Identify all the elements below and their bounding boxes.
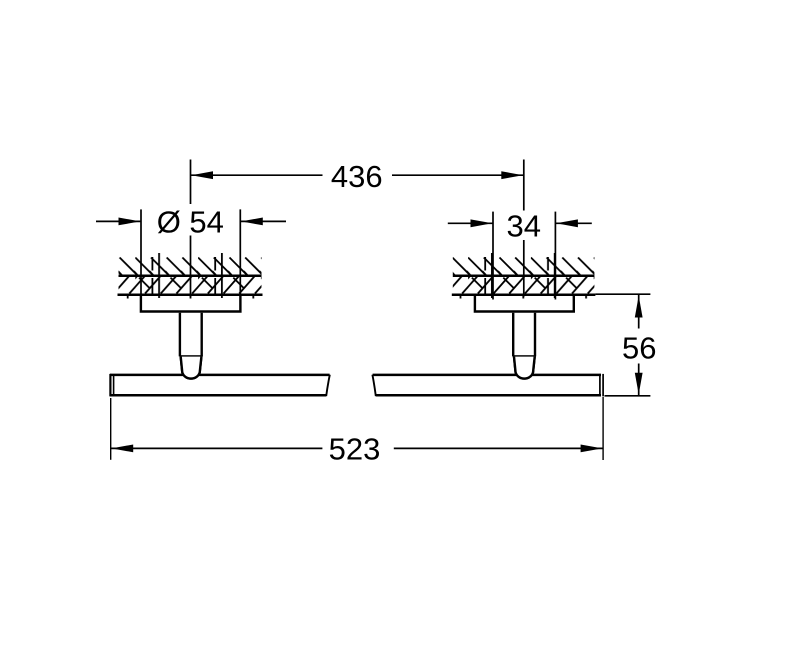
left mount tip [181,357,202,379]
right wall hatch top line [453,274,595,277]
dim 523 line [111,447,603,449]
right mount post [513,313,535,357]
dim 34 extension right [554,212,556,300]
right wall surface line [452,293,596,296]
right mount plate [475,296,574,312]
rail left piece bottom edge [110,394,326,397]
dim 523 right arrowhead [581,445,603,453]
left wall surface line [118,293,263,296]
left mount plate [141,296,241,312]
left mount post [180,313,202,357]
dim 523 extension right [602,397,604,460]
rail right end face [599,374,601,397]
dim 56 line [638,295,640,395]
wall surface reference extension line (for 56 dim) [595,293,650,295]
svg-text:523: 523 [329,432,381,467]
svg-text:436: 436 [331,159,383,194]
svg-text:56: 56 [622,330,656,365]
svg-text:Ø 54: Ø 54 [157,204,224,239]
dim 56 top arrowhead [635,296,643,318]
right mount centerline (436 extension) [523,160,525,297]
rail left piece break line [326,375,330,396]
dim 436 left arrowhead [191,171,213,179]
dim O54 extension right [239,209,241,312]
rail left end face [109,374,111,397]
dim O54 left arrow [96,220,141,222]
dim 436 right arrowhead [501,171,523,179]
rail bottom reference line (for 56 dim) [605,395,651,397]
dim 34 left arrow [448,222,493,224]
dim 56 bottom arrowhead [635,373,643,395]
dim 523 extension left [110,398,112,460]
rail right piece bottom edge [376,394,601,397]
right mount tip [514,357,535,379]
right wall hatch texture [453,253,595,299]
rail right piece top edge [373,374,601,377]
dim 34 right arrow [555,222,591,224]
left wall hatch texture [119,253,262,299]
rail right piece break line [372,375,375,396]
left mount tip redrawn over rail [181,357,202,379]
rail left piece top edge [110,374,330,377]
right mount tip redrawn over rail [514,357,535,379]
dim O54 extension left [140,209,142,312]
left wall hatch top line [119,274,262,277]
dim 523 left arrowhead [112,445,134,453]
dim 34 extension left [492,212,494,300]
left mount centerline (436 extension) [190,160,192,297]
svg-text:34: 34 [507,209,541,244]
dim 436 line [191,174,524,176]
dim O54 right arrow [240,220,286,222]
